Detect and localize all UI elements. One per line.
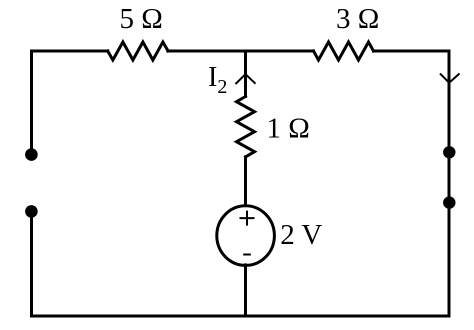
voltage source V1 2 V xyxy=(217,206,275,266)
wire top-right: 3 ohm across and down right side to bottom corner xyxy=(374,51,450,316)
wire center branch: 1 ohm down to voltage source xyxy=(244,157,247,206)
svg-text:1 Ω: 1 Ω xyxy=(267,113,310,145)
resistor 5 Ω xyxy=(108,42,168,60)
wire center branch upper: junction down to 1 ohm xyxy=(244,51,247,97)
wire top middle: 5 ohm to 3 ohm through center junction xyxy=(168,50,314,53)
resistor 3 Ω xyxy=(314,42,374,60)
arrowhead current direction down on right branch xyxy=(440,74,460,83)
wire bottom xyxy=(32,315,450,318)
svg-text:I2: I2 xyxy=(208,62,227,98)
wire top-left: node A up and across to 5 ohm resistor xyxy=(32,51,108,153)
node dot right lower xyxy=(443,196,455,208)
svg-text:3 Ω: 3 Ω xyxy=(336,3,379,35)
plus sign of voltage source xyxy=(240,211,255,226)
node dot left lower terminal xyxy=(25,205,38,218)
node dot right upper xyxy=(443,146,455,158)
svg-text:2 V: 2 V xyxy=(280,219,322,251)
wire center branch lower: voltage source to bottom wire xyxy=(244,265,247,316)
arrowhead of current I2 pointing up on center branch xyxy=(236,74,256,84)
resistor 1 Ω xyxy=(237,97,255,157)
node dot left upper terminal xyxy=(25,148,38,161)
wire left bottom segment: node B down to bottom corner xyxy=(30,211,33,316)
minus sign of voltage source xyxy=(243,254,251,256)
svg-text:5 Ω: 5 Ω xyxy=(120,3,163,35)
